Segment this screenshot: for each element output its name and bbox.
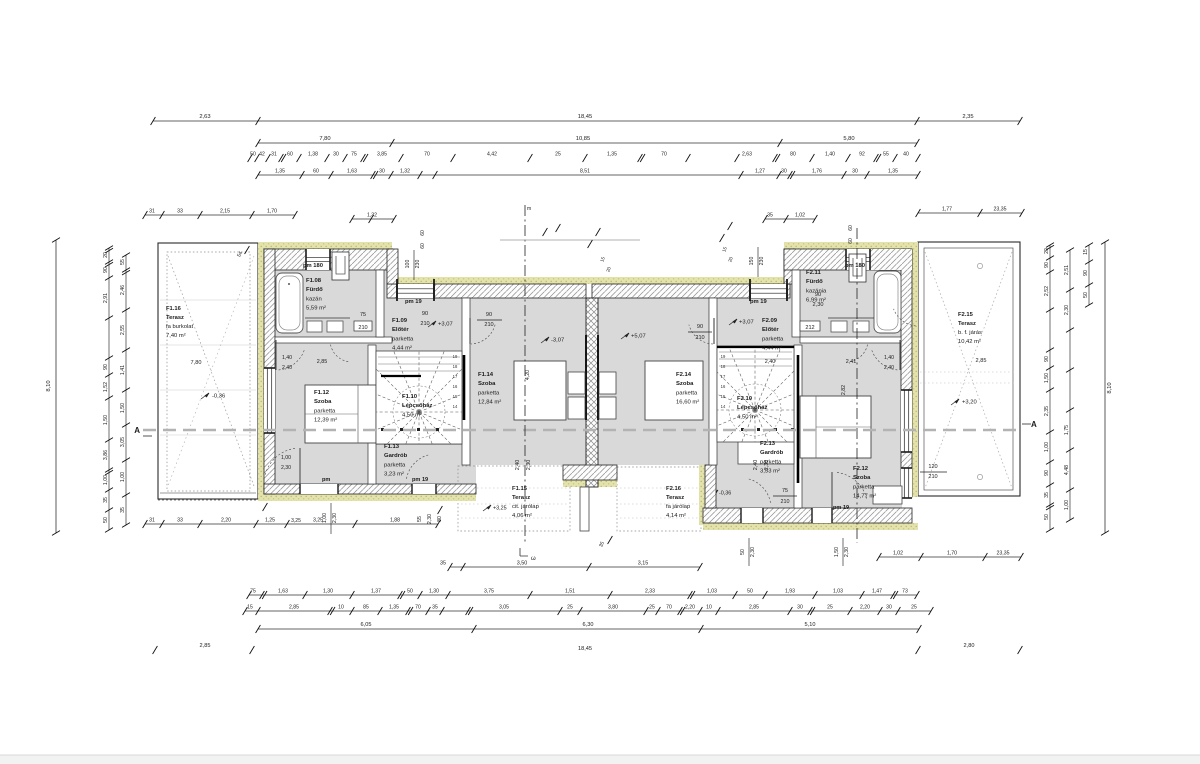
svg-text:50: 50 [740,549,746,555]
bed F1.14 with nightstands [514,361,566,420]
svg-text:F2.11: F2.11 [806,270,821,276]
bottom row D [256,622,922,633]
svg-text:4,42: 4,42 [487,152,497,158]
staircase F1.10 flight edge bold [381,375,421,377]
svg-text:4,50 m²: 4,50 m² [737,414,757,420]
svg-text:16: 16 [453,384,458,389]
terrace F2.15 diagonal dotted braces [925,252,1012,488]
svg-text:15: 15 [721,394,726,399]
svg-text:150: 150 [749,257,755,266]
svg-text:2,80: 2,80 [964,643,975,649]
svg-text:18,45: 18,45 [578,114,593,120]
svg-text:25: 25 [555,152,561,158]
svg-text:30: 30 [379,169,385,175]
wall hatch top-left block [264,249,392,270]
svg-text:Lépcsőház: Lépcsőház [737,405,767,411]
svg-text:1,00: 1,00 [120,472,126,482]
svg-text:F2.16: F2.16 [666,486,682,492]
svg-text:4,50 m²: 4,50 m² [402,412,422,418]
wall hatch step right [784,249,795,284]
svg-text:7,80: 7,80 [191,360,202,366]
svg-text:75: 75 [360,312,366,318]
svg-text:70: 70 [661,152,667,158]
svg-text:16: 16 [721,384,726,389]
svg-text:17: 17 [721,374,726,379]
svg-text:85: 85 [363,605,369,611]
svg-text:1,35: 1,35 [888,169,898,175]
wall hatch bottom wall right unit [703,508,912,523]
svg-text:210: 210 [695,335,704,341]
insulation strip bottom left unit [258,494,476,501]
svg-text:2,20: 2,20 [860,605,870,611]
svg-text:90: 90 [422,311,428,317]
svg-text:30: 30 [797,605,803,611]
svg-text:2,91: 2,91 [103,293,109,303]
insulation strip top-left block [258,242,392,249]
svg-text:1,00: 1,00 [281,455,291,461]
bathtub right F2.11 [874,271,901,333]
upper-mid-left chain [350,212,397,223]
svg-text:25: 25 [649,605,655,611]
svg-text:100: 100 [405,260,411,269]
svg-text:2,85: 2,85 [976,358,987,364]
svg-text:210: 210 [484,322,493,328]
terrace F2.15 deck lines [920,371,1016,373]
left overall vertical chain 8,99 [46,238,60,536]
svg-text:3,05: 3,05 [499,605,509,611]
svg-text:2,20: 2,20 [685,605,695,611]
window right exterior wall small [901,468,912,498]
svg-text:F2.10: F2.10 [737,396,753,402]
svg-text:2,63: 2,63 [199,114,210,120]
insulation strip right wall [912,242,918,497]
svg-text:1,52: 1,52 [103,382,109,392]
window top wall right unit 150/230 [750,284,787,298]
svg-text:4,44 m²: 4,44 m² [392,346,412,352]
insulation strip step left [387,248,393,284]
wall hatch bottom wall left unit [264,484,476,494]
svg-text:4,20: 4,20 [525,370,531,380]
svg-text:2,82: 2,82 [841,385,847,395]
shaft pm180 right [849,254,866,282]
svg-text:1,41: 1,41 [120,365,126,375]
door size box 210 left bath [354,321,372,331]
svg-text:75: 75 [250,589,256,595]
floor slab right unit (grey) [598,270,902,508]
svg-text:18: 18 [453,364,458,369]
svg-text:16,60 m²: 16,60 m² [676,400,699,406]
svg-text:+3,07: +3,07 [739,320,754,326]
svg-text:19: 19 [721,354,726,359]
right vertical chain 1 [1044,243,1054,533]
svg-text:2,52: 2,52 [1044,286,1050,296]
svg-text:33: 33 [177,517,183,523]
svg-text:kazán: kazán [306,296,322,302]
svg-text:2,33: 2,33 [645,589,655,595]
svg-text:2,35: 2,35 [1044,406,1050,416]
svg-text:10,85: 10,85 [576,136,591,142]
svg-text:1,63: 1,63 [278,589,288,595]
svg-text:1,40: 1,40 [884,355,894,361]
svg-text:parketta: parketta [478,390,500,396]
svg-text:90: 90 [103,267,109,273]
svg-text:2,51: 2,51 [1064,265,1070,275]
door gap bottom wall right unit 2 [812,508,832,523]
window posts top right unit [749,279,751,301]
svg-text:F2.09: F2.09 [762,318,778,324]
svg-text:90: 90 [1044,262,1050,268]
svg-text:F1.15: F1.15 [512,486,528,492]
svg-text:210: 210 [420,321,429,327]
svg-text:5,10: 5,10 [805,622,816,628]
svg-text:Szoba: Szoba [676,381,694,387]
door size box 212 right bath [800,321,820,331]
svg-text:73: 73 [902,589,908,595]
interior wall bath/szoba right (horizontal) [800,337,901,343]
svg-text:12,39 m²: 12,39 m² [314,418,337,424]
interior wall stairs/szoba right [794,345,802,508]
svg-text:fa burkolat: fa burkolat [166,324,193,330]
door arc gardrob F1.13 [407,455,429,479]
top row1 line [151,114,1023,125]
terrace F1.16 left outer frame [158,243,258,499]
terrace F1.16 inner dotted frame [167,252,250,491]
svg-text:1,40: 1,40 [825,152,835,158]
interior wall szoba/stairs left [368,345,376,484]
window top-right block (bath) [846,249,870,270]
svg-text:1,75: 1,75 [1064,425,1070,435]
insulation strip mid band left [387,277,592,284]
staircase F1.10 upper treads [378,356,460,358]
tick top step right [720,234,725,242]
wall hatch left exterior wall [264,249,275,494]
svg-text:90: 90 [1044,356,1050,362]
svg-text:17: 17 [453,374,458,379]
door arc bath left [331,345,349,362]
svg-text:75: 75 [782,488,788,494]
svg-text:3,15: 3,15 [638,560,649,566]
svg-text:55: 55 [417,516,423,522]
svg-text:35: 35 [120,507,126,513]
svg-text:70: 70 [415,605,421,611]
interior wall bath/eloter left (vertical) [376,270,384,337]
svg-text:-3,07: -3,07 [551,338,564,344]
svg-text:60: 60 [848,238,854,244]
svg-text:60: 60 [313,169,319,175]
svg-text:fa járólap: fa járólap [666,504,691,510]
svg-text:1,35: 1,35 [607,152,617,158]
level mark +5,07 center right [621,333,629,339]
left vertical chain 2 [103,246,113,533]
wall hatch top-right block [784,249,912,270]
svg-text:40: 40 [903,152,909,158]
svg-text:50: 50 [1083,292,1089,298]
svg-text:42: 42 [259,152,265,158]
svg-text:210: 210 [928,474,937,480]
svg-text:3,53 m²: 3,53 m² [760,469,780,475]
svg-text:1,02: 1,02 [795,212,805,218]
top row2 line [256,136,920,147]
svg-text:2,30: 2,30 [427,514,433,524]
svg-text:18,45: 18,45 [578,646,592,652]
svg-text:Fürdő: Fürdő [306,287,323,293]
ticks at top wall mid [543,228,548,236]
svg-text:6,30: 6,30 [583,622,594,628]
shaft pm180 left [332,252,349,280]
svg-text:F1.09: F1.09 [392,318,408,324]
svg-text:1,35: 1,35 [275,169,285,175]
section line A-A horizontal dashed grey [143,429,1022,432]
svg-text:55: 55 [883,152,889,158]
level mark +3,07 right [729,319,737,325]
svg-text:1,93: 1,93 [785,589,795,595]
interior wall gardrob top right [717,440,794,442]
svg-text:90: 90 [1083,270,1089,276]
svg-text:Fürdő: Fürdő [806,279,823,285]
svg-text:2,30: 2,30 [764,460,770,471]
bottom row E overall [153,643,1023,654]
svg-text:2,40: 2,40 [884,365,894,371]
svg-text:Terasz: Terasz [512,495,530,501]
terrace F1.16 level mark -0,36 [201,393,209,399]
wall hatch right exterior wall [901,249,912,497]
svg-text:2,40: 2,40 [515,460,521,471]
svg-text:2,30: 2,30 [844,547,850,557]
terrace F2.16 bottom-right dotted frame [617,467,701,531]
svg-text:2,30: 2,30 [332,513,338,523]
svg-text:F1.10: F1.10 [402,394,418,400]
section marks on stairs left [381,428,384,431]
svg-text:1,25: 1,25 [265,517,275,523]
svg-text:parketta: parketta [392,336,414,342]
window top wall left unit 100/230 [397,284,434,298]
bottom right chain [877,550,1024,561]
svg-text:4,48: 4,48 [1064,465,1070,475]
svg-text:F1.08: F1.08 [306,278,322,284]
svg-text:1,76: 1,76 [812,169,822,175]
wall hatch bath corner right [860,249,912,270]
svg-text:8,10: 8,10 [1107,382,1113,393]
svg-text:1,32: 1,32 [367,212,377,218]
svg-text:2,46: 2,46 [120,285,126,295]
svg-text:31: 31 [149,517,155,523]
svg-text:1,30: 1,30 [323,589,333,595]
terrace F1.15 bottom-left dotted frame [458,466,570,531]
svg-text:1,50: 1,50 [1044,373,1050,383]
staircase F2.10 treadsR [640,295,870,525]
svg-text:19: 19 [453,354,458,359]
svg-text:1,00: 1,00 [1044,442,1050,452]
party wall bold edges [585,335,587,420]
svg-text:1,63: 1,63 [347,169,357,175]
upper-left extra tick 54 [245,246,250,254]
svg-text:35: 35 [103,497,109,503]
svg-text:3,05: 3,05 [120,437,126,447]
terrace F2.15 right outer frame [918,242,1020,496]
svg-text:14: 14 [721,404,726,409]
window posts top left unit [396,279,398,301]
terrace F2.15 inner frame [924,248,1013,490]
svg-text:pm: pm [322,477,330,483]
terrace F1.15 level mark [483,505,491,511]
svg-text:Terasz: Terasz [958,321,976,327]
washbasin counter right [828,317,874,319]
tick top step left [596,228,601,236]
svg-text:50: 50 [407,589,413,595]
svg-text:1,02: 1,02 [893,550,903,556]
svg-text:92: 92 [859,152,865,158]
svg-text:F2.12: F2.12 [853,466,869,472]
svg-text:F1.12: F1.12 [314,390,330,396]
svg-text:2,55: 2,55 [120,325,126,335]
svg-text:5,59 m²: 5,59 m² [306,306,326,312]
svg-text:2,20: 2,20 [221,517,231,523]
svg-text:60: 60 [848,225,854,231]
svg-text:F2.14: F2.14 [676,372,692,378]
door arc F1.14 from hall [471,325,495,344]
bed F2.12 [800,396,871,458]
svg-text:90: 90 [697,324,703,330]
terrace divider wall hatch [563,465,617,480]
svg-text:30: 30 [781,169,787,175]
svg-text:12,84 m²: 12,84 m² [478,400,501,406]
door arc terrace F2.15 [894,309,916,326]
svg-text:+3,25: +3,25 [493,506,507,512]
svg-text:7,40 m²: 7,40 m² [166,333,186,339]
svg-text:A: A [1031,420,1037,429]
svg-text:2,85: 2,85 [200,643,211,649]
terrace bottom dotted walk line [158,499,330,501]
svg-text:2,63: 2,63 [742,152,752,158]
svg-text:pm 19: pm 19 [750,299,768,305]
svg-text:1,03: 1,03 [833,589,843,595]
svg-text:1,35: 1,35 [389,605,399,611]
svg-text:Szoba: Szoba [853,475,871,481]
svg-text:4,44 m²: 4,44 m² [762,346,782,352]
svg-text:60: 60 [420,230,426,236]
svg-text:m: m [527,206,531,212]
svg-text:pm 19: pm 19 [405,299,423,305]
svg-text:20: 20 [103,252,109,258]
insulation strip step right [784,248,790,284]
svg-text:50: 50 [250,152,256,158]
axis centerline right unit [856,228,858,543]
svg-text:parketta: parketta [853,484,875,490]
svg-text:31: 31 [271,152,277,158]
svg-text:2,41: 2,41 [846,359,857,365]
staircase F2.10 upper treads [719,351,792,353]
door arc bath right [850,345,868,362]
svg-text:80: 80 [790,152,796,158]
svg-text:ω: ω [531,556,536,562]
svg-text:Szoba: Szoba [314,399,332,405]
svg-text:70: 70 [666,605,672,611]
svg-text:60: 60 [287,152,293,158]
svg-text:35: 35 [440,560,446,566]
svg-text:1,70: 1,70 [947,550,957,556]
svg-text:1,00: 1,00 [103,475,109,485]
interior wall gardrob top left [376,443,462,445]
bed F2.14 with nightstands [645,361,703,420]
svg-text:1,47: 1,47 [872,589,882,595]
svg-text:120: 120 [928,464,937,470]
terrace F2.16 deck dotted lines [620,487,698,489]
insulation strip right unit west low wall [699,465,705,525]
svg-text:30: 30 [886,605,892,611]
svg-text:3,85: 3,85 [377,152,387,158]
svg-text:F1.16: F1.16 [166,306,182,312]
svg-text:14: 14 [453,404,458,409]
svg-text:F1.14: F1.14 [478,372,494,378]
wardrobe F2.12 east [873,486,902,504]
svg-text:30: 30 [852,169,858,175]
door arc F2.12 bottom [837,472,867,498]
door gap bottom wall left unit 2 [412,484,436,494]
terrace F1.16 diagonal dotted braces [168,256,254,486]
roof outline line above center [500,239,640,241]
staircase F2.10 flight edge bold [717,346,794,348]
svg-text:60: 60 [420,243,426,249]
svg-text:8,10: 8,10 [46,380,52,391]
wall hatch mid top band right [592,284,790,298]
svg-text:15: 15 [1083,249,1089,255]
door gap bottom wall left unit 1 [300,484,338,494]
svg-text:Lépcsőház: Lépcsőház [402,403,432,409]
svg-text:1,00: 1,00 [1064,500,1070,510]
floor slab left unit (grey) [274,270,586,484]
svg-text:90: 90 [103,364,109,370]
svg-text:Terasz: Terasz [166,315,184,321]
svg-text:10,42 m²: 10,42 m² [958,339,981,345]
svg-text:90: 90 [1044,470,1050,476]
svg-text:1,30: 1,30 [429,589,439,595]
staircase F1.10 treadsL [304,297,534,527]
svg-text:Előtér: Előtér [392,327,409,333]
svg-text:Előtér: Előtér [762,327,779,333]
bottom page strip [0,755,1200,764]
svg-text:23,35: 23,35 [994,206,1007,212]
svg-text:5,80: 5,80 [843,136,854,142]
svg-text:1,03: 1,03 [707,589,717,595]
svg-text:1,77: 1,77 [942,206,952,212]
svg-text:parketta: parketta [314,408,336,414]
top row4 line [256,169,921,179]
bottom mid chain [440,560,702,571]
svg-text:3,80: 3,80 [608,605,618,611]
svg-text:1,70: 1,70 [267,208,277,214]
interior wall bath/szoba left (horizontal) [275,337,392,343]
svg-text:35: 35 [432,605,438,611]
svg-text:pm 19: pm 19 [833,505,849,511]
svg-text:1,27: 1,27 [755,169,765,175]
door arc F1.12 bottom [265,448,295,474]
wardrobe F2.13 [738,441,794,464]
window left exterior wall 150/240 [264,368,275,433]
terrace F1.15 deck dotted lines [461,487,567,489]
svg-text:-0,36: -0,36 [719,491,731,497]
window right exterior wall french door [901,390,912,452]
svg-text:23,35: 23,35 [997,550,1010,556]
svg-text:1,50: 1,50 [120,403,126,413]
svg-text:3,23 m²: 3,23 m² [384,472,404,478]
svg-text:50: 50 [747,589,753,595]
svg-text:2,40: 2,40 [765,359,776,365]
axis symbol bottom left line [520,548,528,556]
svg-text:2,85: 2,85 [749,605,759,611]
door arc F2.14 from hall [689,325,713,344]
svg-text:230: 230 [415,260,421,269]
svg-text:3,86: 3,86 [103,450,109,460]
